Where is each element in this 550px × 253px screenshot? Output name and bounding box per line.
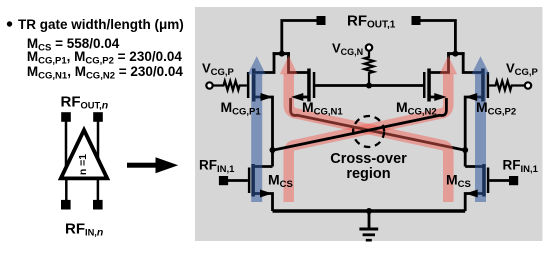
drain lead <box>289 52 308 72</box>
gate bar <box>423 72 426 98</box>
gate wire from RFIN,1 right <box>489 179 511 182</box>
terminal square RFOUT left <box>317 16 326 25</box>
ground rail <box>273 209 466 212</box>
panel background <box>195 7 543 241</box>
wire: right drain bar <box>447 52 464 55</box>
unit cell triangle <box>61 130 107 178</box>
red signal path B (bottom-right to top-left) <box>280 56 448 202</box>
source arrow MCG,P2 <box>465 93 477 101</box>
source lead <box>297 96 308 99</box>
gate wire + resistor from VCG,P right <box>489 81 525 90</box>
source lead <box>255 194 273 212</box>
node on gate line <box>366 83 372 89</box>
channel bar <box>252 69 256 102</box>
drain lead <box>255 165 273 168</box>
source arrow MCS left <box>260 190 272 198</box>
wire: left RFout branch <box>282 21 317 54</box>
ground symbol <box>359 208 378 240</box>
unit cell top square right <box>93 112 103 122</box>
channel bar <box>251 164 255 197</box>
source arrow MCG,P1 <box>261 93 273 101</box>
unit cell top stub left <box>65 121 68 166</box>
drain lead <box>255 52 274 72</box>
wire: right RFout branch <box>421 21 456 54</box>
terminal square RFIN,1 right <box>509 176 518 185</box>
node right crossover <box>462 147 468 153</box>
gate bar <box>487 72 490 98</box>
unit cell bottom stub left <box>65 177 68 201</box>
VCG,N gate line <box>314 84 424 87</box>
svg-text:RFIN,n: RFIN,n <box>65 221 103 239</box>
node on left drain bar <box>279 51 285 57</box>
source lead <box>465 97 482 167</box>
wire: descending cross-over diagonal (MCG,N1 source to right node) <box>291 98 466 150</box>
transistor MCG,P1 <box>206 52 274 166</box>
source lead <box>430 96 441 99</box>
svg-text:RFOUT,n: RFOUT,n <box>61 94 109 112</box>
red signal path A (bottom-left to top-right) <box>289 56 457 202</box>
wire: left drain bar <box>273 52 290 55</box>
dashed circle cross-over region <box>353 116 384 147</box>
svg-text:TR gate width/length (μm): TR gate width/length (μm) <box>18 17 184 32</box>
unit cell top square left <box>61 112 71 122</box>
node left crossover <box>270 147 276 153</box>
source lead <box>255 97 273 167</box>
source lead <box>465 194 483 212</box>
source arrow MCS right <box>465 190 477 198</box>
channel bar <box>482 164 486 197</box>
transistor MCS left <box>219 164 273 211</box>
big arrow <box>127 163 156 168</box>
terminal circle VCG,N <box>366 44 372 50</box>
svg-text:Cross-over: Cross-over <box>330 151 407 167</box>
unit cell bottom square right <box>93 200 103 210</box>
svg-text:n =1: n =1 <box>77 154 89 175</box>
channel bar <box>427 69 431 102</box>
transistor MCG,N1 <box>289 52 316 101</box>
bullet <box>7 21 12 26</box>
terminal square RFOUT right <box>412 16 421 25</box>
gate bar <box>313 72 316 98</box>
drain lead <box>430 52 449 72</box>
unit cell top stub right <box>97 121 100 159</box>
unit cell bottom stub right <box>97 177 100 201</box>
blue signal path left <box>248 56 266 202</box>
gate wire from RFIN,1 left <box>227 179 248 182</box>
svg-text:MCG,N1, MCG,N2 = 230/0.04: MCG,N1, MCG,N2 = 230/0.04 <box>27 64 184 82</box>
unit cell bottom square left <box>61 200 71 210</box>
svg-text:region: region <box>346 166 390 182</box>
channel bar <box>481 69 485 102</box>
terminal circle VCG,P left <box>206 82 212 88</box>
gate bar <box>487 168 490 194</box>
blue signal path right <box>472 56 490 202</box>
gate bar <box>247 72 250 98</box>
drain lead <box>463 52 482 72</box>
wire: ascending cross-over diagonal (left node to MCG,N2 source) <box>273 98 447 150</box>
node on right drain bar <box>452 51 458 57</box>
terminal circle VCG,P right <box>525 82 531 88</box>
drain lead <box>465 165 483 168</box>
source arrow MCG,N2 <box>434 93 446 101</box>
transistor MCG,N2 <box>423 52 449 101</box>
transistor MCS right <box>465 164 518 211</box>
gate bar <box>248 168 251 194</box>
channel bar <box>307 69 311 102</box>
gate wire + resistor from VCG,P left <box>213 81 247 90</box>
terminal square RFIN,1 left <box>219 176 228 185</box>
source arrow MCG,N1 <box>291 93 303 101</box>
resistor VCG,N <box>364 51 373 86</box>
transistor MCG,P2 <box>463 52 531 166</box>
